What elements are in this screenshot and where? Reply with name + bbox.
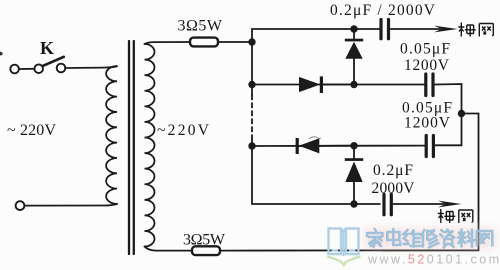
transformer secondary winding [145,44,155,247]
svg-text:0.05μF: 0.05μF [400,41,450,58]
svg-text:0.2μF: 0.2μF [373,162,413,179]
switch K blade [43,57,64,66]
svg-text:~220V: ~220V [157,122,210,139]
svg-text:3Ω5W: 3Ω5W [183,232,226,249]
capacitor C3 0.05uF 1200V [425,136,428,157]
terminal circle bottom left [16,201,25,210]
junction rail4/D4 [350,200,357,207]
wire C3 to right column [435,144,461,146]
switch K terminal circle middle [34,64,43,73]
wire C1 to arrow [391,28,441,30]
diode D1 vertical lead [353,29,355,85]
wire secondary bottom to resistor R2 [145,247,193,251]
junction node A [248,38,255,45]
wire node C to bottom right rail [221,114,479,251]
svg-text:2000V: 2000V [372,180,416,197]
junction node B [248,81,255,88]
wire node A up to top rail [252,29,379,42]
svg-text:1200V: 1200V [404,115,451,132]
wire secondary top to resistor R1 [145,42,191,44]
svg-text:3Ω5W: 3Ω5W [178,18,223,35]
scan smudge [309,137,321,139]
wire node D down to rail4 corner [252,140,380,204]
svg-text:K: K [40,38,54,58]
svg-text:~ 220V: ~ 220V [7,122,56,139]
watermark text jia-dian-wei-xiu-zi-liao-wang [367,229,492,248]
capacitor C4 0.2uF 2000V [382,195,385,215]
junction node C right [458,110,465,117]
switch K terminal circle right [57,64,66,73]
diode D2 body [299,77,320,92]
diode D3 lead [299,145,355,147]
capacitor C1 0.2uF/2000V [379,20,382,39]
wire resistor R1 to node A [218,41,252,43]
label grid-net 2 (shan wang) [438,209,473,223]
junction rail3/D4 [350,142,357,149]
arrow to grid 1 [434,26,458,33]
wire switch to primary [65,66,116,68]
label grid-net 1 (shan wang) [458,23,493,37]
diode D1 body [345,42,362,59]
capacitor C2 0.05uF 1200V [424,74,427,96]
dashed wire node B to node D [251,95,253,140]
wire primary bottom to terminal [25,204,117,206]
junction rail2/D1 [350,81,357,88]
junction rail1/D1 [350,25,357,32]
junction node D [248,142,255,149]
wire node A down to node B [251,42,253,95]
diode D4 body [345,162,362,183]
switch K terminal circle left [10,65,19,74]
wire between switch circles [19,68,34,70]
wire C4 to arrow2 [394,203,445,205]
transformer core [128,41,130,254]
transformer primary winding [106,66,117,204]
rail2 wire [252,84,425,86]
rail3 wire [252,145,426,147]
svg-text:www.520101.com: www.520101.com [367,253,500,267]
svg-text:1200V: 1200V [404,57,450,74]
resistor R1 3ohm5W top [190,38,218,47]
diode D4 vertical lead [353,146,355,204]
left edge smudge [0,52,3,56]
resistor R2 3ohm5W bottom [192,246,220,255]
diode D2 horizontal lead [321,84,355,86]
svg-text:0.2μF / 2000V: 0.2μF / 2000V [330,2,436,19]
watermark book icon [329,229,359,257]
diode D3 body (points left) [299,138,320,153]
wire C2 to right column [435,84,462,145]
arrow to grid 2 [438,201,462,208]
